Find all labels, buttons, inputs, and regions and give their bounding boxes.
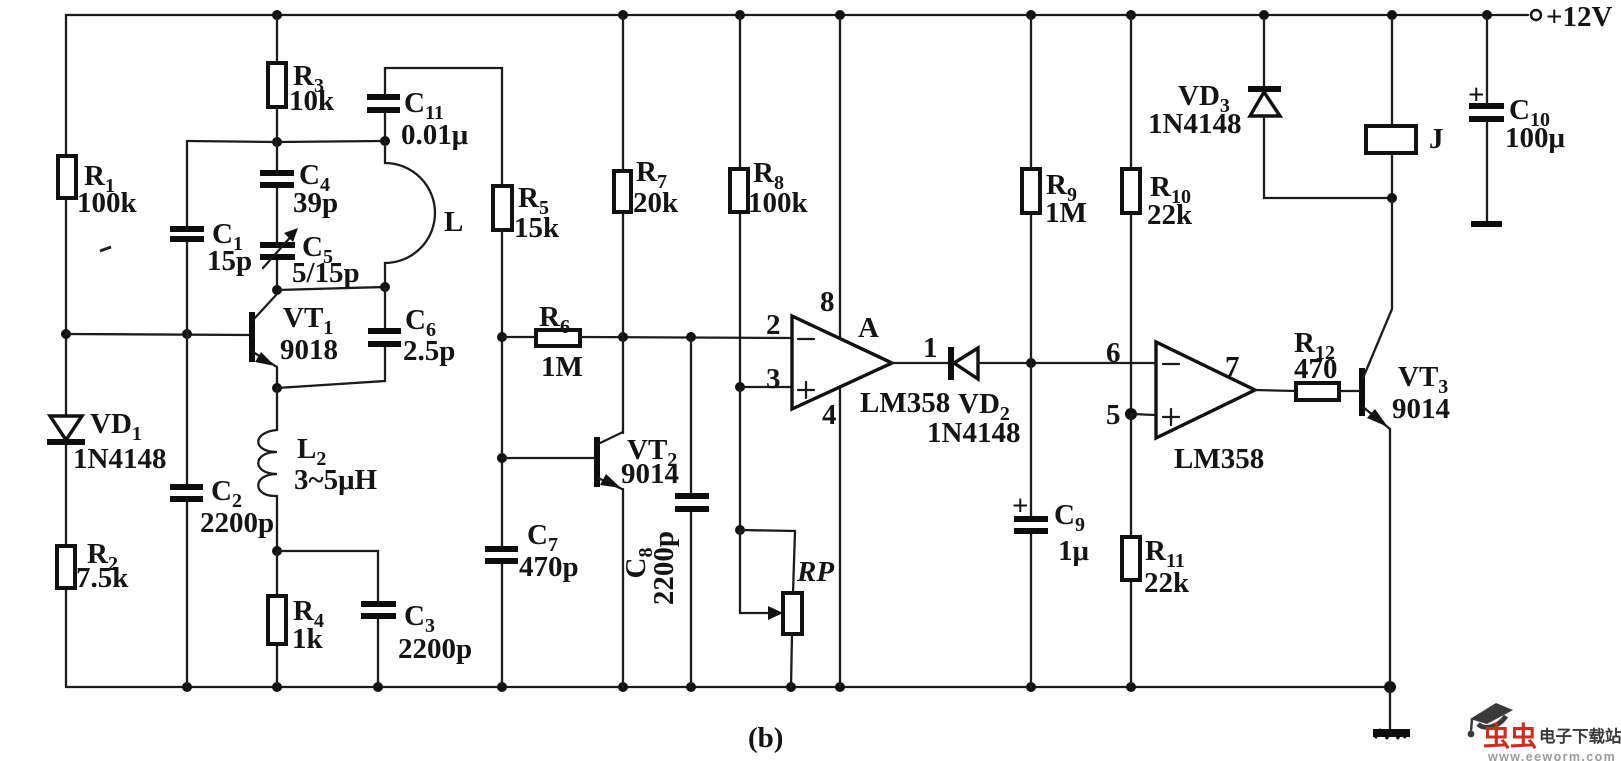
node L bottom / C6 top (380, 282, 390, 292)
node bottom rail / VT2 emitter column (618, 682, 628, 692)
watermark text url (1487, 750, 1616, 761)
svg-text:7.5k: 7.5k (76, 562, 129, 594)
wire pin5 (1131, 414, 1156, 415)
capacitor C8 2200p (620, 496, 709, 605)
resistor R7 20k (614, 156, 679, 219)
node top rail / C10 column (1482, 10, 1492, 20)
node pin3 branch on R8 column (735, 382, 745, 392)
svg-text:A: A (858, 312, 879, 344)
svg-text:5: 5 (1106, 399, 1121, 431)
wire RP top lead (740, 530, 795, 593)
node bottom rail / ground column (1384, 681, 1396, 693)
svg-text:1: 1 (923, 332, 938, 364)
wire tank bottom horizontal (277, 287, 385, 290)
wire base line (66, 334, 250, 335)
node top rail / R7 column (618, 10, 628, 20)
svg-text:LM358: LM358 (1174, 443, 1264, 475)
node VT1 emitter (272, 383, 282, 393)
node top rail / R3 column (272, 10, 282, 20)
svg-text:+: + (1012, 490, 1029, 522)
node top rail / relay column (1387, 10, 1397, 20)
svg-text:2: 2 (766, 309, 781, 341)
svg-text:1N4148: 1N4148 (1148, 108, 1241, 140)
svg-text:1M: 1M (541, 351, 583, 383)
capacitor C1 15p (170, 218, 252, 277)
capacitor C4 39p (260, 159, 338, 219)
node bottom rail / C8 column (686, 682, 696, 692)
svg-text:39p: 39p (293, 187, 338, 219)
resistor R6 1M (502, 301, 583, 383)
watermark text site name (1539, 726, 1621, 746)
resistor R11 22k (1122, 535, 1190, 599)
svg-text:100μ: 100μ (1505, 122, 1566, 154)
wire R3 column top (276, 15, 278, 142)
wire R4 column (276, 551, 278, 687)
node C9 junction (1026, 358, 1036, 368)
svg-text:2200p: 2200p (648, 531, 680, 605)
capacitor C5 trimmer 5/15p (260, 228, 360, 289)
wire RP wiper lead (740, 530, 783, 620)
diode VD2 1N4148 (927, 347, 1020, 449)
svg-text:9014: 9014 (1392, 393, 1450, 425)
svg-text:2200p: 2200p (398, 633, 472, 665)
op-amp U1A LM358 (766, 286, 950, 431)
capacitor C2 2200p (170, 475, 274, 539)
svg-text:15p: 15p (207, 245, 252, 277)
wire C6 column (277, 287, 385, 388)
watermark logo graduation cap (1468, 703, 1513, 737)
wire R5 to base line (501, 230, 503, 337)
node base-bias junction on left rail (61, 329, 71, 339)
svg-text:9014: 9014 (621, 458, 679, 490)
svg-text:470: 470 (1294, 353, 1338, 385)
diode VD1 1N4148 (47, 408, 166, 475)
node top rail / R9 column (1026, 10, 1036, 20)
svg-text:虫虫: 虫虫 (1483, 722, 1537, 752)
transistor VT2 9014 (502, 432, 679, 490)
node relay bottom / VD3 (1387, 193, 1397, 203)
svg-text:+: + (1468, 79, 1485, 111)
svg-text:0.01μ: 0.01μ (401, 119, 469, 151)
wire R7 column (622, 15, 624, 433)
wire R8 column to RP (739, 387, 741, 530)
capacitor C3 2200p (361, 600, 472, 665)
svg-text:www.eeworm.com: www.eeworm.com (1487, 750, 1616, 761)
node bottom rail / C3 column (373, 682, 383, 692)
svg-text:电子下载站: 电子下载站 (1539, 726, 1621, 746)
wire R11 column (1130, 414, 1132, 687)
wire C4-C5 column (276, 142, 278, 290)
node R5 bottom / R6 line (497, 332, 507, 342)
svg-text:3~5μH: 3~5μH (294, 464, 378, 496)
resistor R12 470 (1294, 327, 1339, 400)
svg-text:9018: 9018 (280, 334, 338, 366)
wire C3 branch (277, 551, 378, 687)
node C8 column on signal line (686, 332, 696, 342)
+12V supply terminal (1531, 1, 1613, 33)
capacitor C10 100u polarized (1468, 15, 1566, 224)
node VT2 base branch (497, 453, 507, 463)
svg-text:1k: 1k (292, 623, 324, 655)
capacitor C7 470p (485, 519, 579, 583)
wire top supply rail (66, 14, 1528, 16)
svg-text:LM358: LM358 (860, 387, 950, 419)
node C11 / L / tank-top junction (380, 136, 390, 146)
node L2 bottom (272, 546, 282, 556)
svg-text:100k: 100k (748, 187, 809, 219)
relay J (1366, 15, 1444, 198)
node bottom rail / C7 column (497, 682, 507, 692)
wire op-amp B output (1255, 390, 1296, 391)
node tank bottom (272, 285, 282, 295)
svg-text:6: 6 (1106, 337, 1121, 369)
resistor R5 (493, 182, 560, 244)
svg-text:20k: 20k (633, 187, 679, 219)
resistor R3 (268, 60, 335, 117)
svg-text:15k: 15k (514, 212, 560, 244)
wire C9 column (1030, 363, 1032, 687)
caption (b) (748, 722, 783, 754)
wire tank top horizontal (187, 141, 385, 142)
node tank top (272, 137, 282, 147)
wire C11 leads (385, 68, 502, 186)
wire R5 column lower (501, 337, 503, 687)
node bottom rail / R11 column (1126, 682, 1136, 692)
wire pin8 to rail (839, 15, 841, 339)
capacitor C6 2.5p (368, 304, 455, 367)
diode VD3 1N4148 (1148, 15, 1392, 198)
node bottom rail / C9 column (1026, 682, 1036, 692)
wire VT3 emitter to ground rail (1389, 429, 1391, 687)
svg-text:100k: 100k (77, 187, 138, 219)
node R7 column on signal line (618, 332, 628, 342)
wire VT2 emitter to ground (622, 489, 624, 687)
wire R6 to op-amp pin2 (580, 337, 792, 338)
svg-text:22k: 22k (1147, 199, 1193, 231)
svg-text:3: 3 (766, 363, 781, 395)
wire C1 column (186, 141, 188, 687)
wire C8 column (690, 337, 692, 687)
wire op-amp A output (892, 332, 950, 364)
transistor VT3 9014 (1362, 309, 1450, 429)
svg-text:J: J (1429, 123, 1444, 155)
inductor L (385, 141, 463, 287)
resistor R8 100k (730, 15, 809, 387)
svg-text:4: 4 (822, 399, 837, 431)
svg-text:10k: 10k (289, 85, 335, 117)
watermark text chongchong (1483, 722, 1537, 752)
wire relay to VT3 collector (1391, 198, 1393, 308)
ground (1373, 729, 1410, 739)
resistor R4 (268, 595, 324, 655)
svg-text:8: 8 (820, 286, 835, 318)
transistor VT1 9018 (252, 294, 338, 388)
capacitor C9 1u polarized (1012, 490, 1090, 567)
resistor R2 (57, 538, 129, 594)
wire R12 to VT3 base (1339, 390, 1362, 392)
node top rail / pin8 column (835, 10, 845, 20)
node top rail / VD3 column (1259, 10, 1269, 20)
svg-text:2.5p: 2.5p (403, 335, 455, 367)
svg-text:470p: 470p (519, 551, 579, 583)
node top rail / R8 column (735, 10, 745, 20)
svg-text:(b): (b) (748, 722, 783, 754)
resistor R10 22k (1122, 15, 1193, 414)
wire pin3 (740, 386, 792, 388)
svg-text:1μ: 1μ (1058, 535, 1090, 567)
svg-text:7: 7 (1225, 351, 1240, 383)
node bottom rail / RP column (786, 682, 796, 692)
node bottom rail / R4 column (272, 682, 282, 692)
wire pin4 to ground rail (839, 386, 841, 687)
svg-text:22k: 22k (1144, 567, 1190, 599)
capacitor C11 0.01u (367, 87, 469, 151)
node bottom rail / pin4 column (835, 682, 845, 692)
svg-text:5/15p: 5/15p (292, 257, 360, 289)
svg-text:L: L (444, 206, 463, 238)
resistor R9 1M (1022, 15, 1087, 363)
node RP branch (735, 525, 745, 535)
wire VD2 to pin6 (978, 362, 1156, 364)
svg-text:RP: RP (796, 556, 834, 588)
inductor L2 3~5uH (258, 430, 377, 551)
wire left rail (65, 15, 67, 687)
svg-text:+12V: +12V (1546, 1, 1613, 33)
svg-text:1N4148: 1N4148 (73, 443, 166, 475)
svg-text:1N4148: 1N4148 (927, 417, 1020, 449)
node bottom rail / C2 column (182, 682, 192, 692)
resistor R1 (58, 156, 138, 219)
wire bottom ground rail (66, 686, 1390, 688)
wire RP bottom lead (791, 634, 792, 687)
op-amp U1B LM358 (1106, 337, 1264, 475)
svg-text:2200p: 2200p (200, 507, 274, 539)
node pin5 junction (1125, 408, 1137, 420)
wire emitter to L2 (276, 388, 278, 430)
node top rail / R10 column (1126, 10, 1136, 20)
node C1/C2 column on base line (182, 329, 192, 339)
potentiometer RP (783, 556, 834, 634)
svg-text:1M: 1M (1045, 197, 1087, 229)
stray scan mark (100, 247, 111, 251)
wire ground stub (1389, 687, 1391, 731)
